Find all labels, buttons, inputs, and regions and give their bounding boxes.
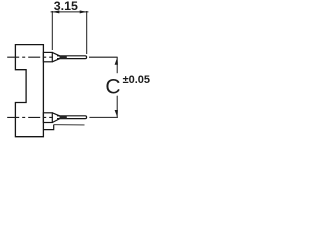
- svg-text:C: C: [105, 76, 120, 99]
- svg-text:3.15: 3.15: [54, 0, 78, 13]
- svg-text:±0.05: ±0.05: [123, 74, 150, 86]
